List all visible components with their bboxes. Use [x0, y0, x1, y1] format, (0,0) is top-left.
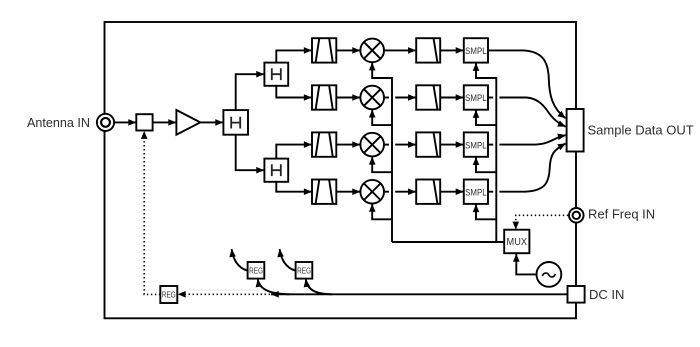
wire: antenna connector to attenuator	[114, 121, 136, 123]
wire: sampler row3 output curve to Sample Data OUT (gap at clock bus)	[488, 135, 566, 144]
regulator REG1	[160, 286, 177, 303]
wire: IF filter to sampler row2	[440, 97, 463, 99]
hybrid splitter H1	[223, 110, 248, 135]
wire: clock tap to sampler row2	[476, 110, 496, 125]
sampler SMPL row3	[464, 132, 488, 156]
wire: H1 bottom output to H3	[236, 135, 264, 171]
sampler SMPL row2	[464, 85, 488, 109]
svg-text:MUX: MUX	[507, 237, 528, 248]
IF filter row2	[416, 85, 440, 109]
multiplexer MUX	[504, 230, 529, 254]
wire: filter to mixer row4	[336, 191, 360, 193]
connector: Sample Data OUT	[567, 109, 584, 152]
regulator REG3	[296, 262, 313, 279]
mixer row3	[360, 133, 384, 157]
wire: amplifier to hybrid H1	[200, 121, 223, 123]
wire: sampler row2 output curve to Sample Data OUT (gap at clock bus)	[488, 98, 566, 127]
wire: IF filter to sampler row1	[440, 49, 463, 51]
connector J2 Ref Freq IN	[569, 208, 584, 223]
oscillator (reference source)	[537, 262, 562, 287]
wire: attenuator to amplifier	[153, 121, 176, 123]
mixer row2	[360, 86, 384, 110]
svg-text:REG: REG	[249, 266, 263, 275]
wire: filter to mixer row1	[336, 49, 360, 51]
amplifier A1	[176, 110, 200, 135]
sampler SMPL row1	[464, 38, 488, 62]
wire: clock tap to sampler row3	[476, 157, 496, 172]
svg-text:SMPL: SMPL	[465, 139, 487, 150]
wire: IF filter to sampler row4	[440, 191, 463, 193]
hybrid splitter H3	[264, 159, 288, 182]
mixer row4	[360, 180, 384, 204]
svg-text:SMPL: SMPL	[465, 186, 487, 197]
hybrid splitter H2	[264, 63, 288, 86]
wire: filter to mixer row3	[336, 144, 360, 146]
bandpass filter row2	[312, 85, 336, 109]
IF filter row3	[416, 132, 440, 156]
wire: H1 top output to H2	[236, 74, 264, 110]
wire: H3 top output to bandpass filter row3	[276, 145, 311, 159]
wire: mixer to IF filter row1	[384, 49, 416, 51]
wire: clock tap to sampler row4	[476, 204, 496, 219]
wire: DC line curve to REG2	[258, 279, 290, 294]
wire: mixer to IF filter row4 (gap at LO bus)	[384, 191, 416, 193]
wire: IF filter to sampler row3	[440, 144, 463, 146]
LO distribution bus from MUX	[372, 63, 392, 242]
wire: oscillator to MUX	[516, 254, 536, 274]
svg-text:SMPL: SMPL	[465, 92, 487, 103]
wire: Ref Freq IN dotted feed to MUX	[516, 215, 568, 229]
enclosure border	[105, 22, 577, 318]
wire: DC IN distribution line (solid)	[271, 293, 568, 295]
sampler SMPL row4	[464, 180, 488, 204]
wire: DC line curve to REG3	[306, 279, 332, 294]
connector J3 DC IN	[568, 286, 585, 303]
wire: LO tap to mixer row3	[372, 157, 392, 172]
attenuator block (controlled switch)	[136, 114, 152, 130]
wire: filter to mixer row2	[336, 97, 360, 99]
regulator REG2	[248, 262, 265, 279]
wire: REG2 output arrow up-left	[232, 249, 248, 270]
wire: LO tap to mixer row4	[372, 204, 392, 219]
svg-text:Sample Data OUT: Sample Data OUT	[588, 122, 694, 137]
wire: sampler row4 output curve to Sample Data OUT (gap at clock bus)	[488, 144, 566, 192]
wire: DC dotted line to REG1	[178, 293, 270, 295]
svg-text:SMPL: SMPL	[465, 45, 487, 56]
wire: REG1 dotted control line to attenuator	[144, 131, 160, 294]
wire: H3 bottom output to bandpass filter row4	[276, 182, 311, 192]
wire: LO tap to mixer row2	[372, 110, 392, 125]
wire: H2 top output to bandpass filter row1	[276, 50, 311, 62]
wire: MUX input line from LO bus	[392, 241, 504, 243]
IF filter row4	[416, 180, 440, 204]
svg-text:REG: REG	[297, 266, 311, 275]
connector J1 Antenna IN	[97, 114, 114, 131]
sample clock bus	[476, 63, 496, 242]
bandpass filter row1	[312, 38, 336, 62]
svg-text:Antenna IN: Antenna IN	[27, 116, 90, 130]
IF filter row1	[416, 38, 440, 62]
wire: mixer to IF filter row2 (gap at LO bus)	[384, 97, 416, 99]
wire: mixer to IF filter row3 (gap at LO bus)	[384, 144, 416, 146]
bandpass filter row3	[312, 132, 336, 156]
svg-text:DC IN: DC IN	[589, 287, 624, 302]
wire: H2 bottom output to bandpass filter row2	[276, 86, 311, 98]
wire: REG3 output arrow up-left	[280, 249, 296, 270]
bandpass filter row4	[312, 180, 336, 204]
svg-text:REG: REG	[162, 291, 176, 300]
wire: sampler row1 output curve to Sample Data OUT	[488, 50, 566, 118]
svg-text:Ref Freq IN: Ref Freq IN	[588, 207, 655, 222]
mixer row1	[360, 39, 384, 63]
